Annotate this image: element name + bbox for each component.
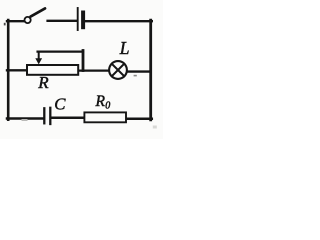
svg-text:R: R [37,73,49,92]
svg-text:L: L [119,38,130,58]
svg-text:C: C [54,94,66,113]
svg-text:0: 0 [105,100,110,111]
svg-text:R: R [95,93,106,110]
